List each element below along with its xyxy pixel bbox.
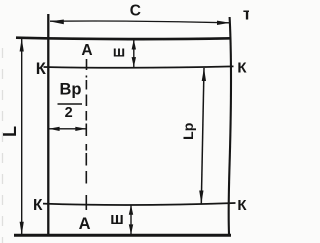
svg-text:2: 2 [65,105,73,121]
svg-text:К: К [36,60,47,78]
svg-text:А: А [81,42,92,59]
svg-text:ш: ш [113,43,126,60]
svg-text:А: А [79,215,91,233]
svg-text:К: К [33,197,43,214]
svg-text:Lр: Lр [180,123,196,140]
svg-text:Вр: Вр [60,80,82,98]
svg-text:К: К [237,197,247,214]
svg-text:C: C [130,3,141,20]
svg-text:К: К [237,59,247,76]
svg-text:т: т [243,4,249,23]
svg-text:L: L [0,126,20,137]
svg-text:ш: ш [110,210,124,228]
